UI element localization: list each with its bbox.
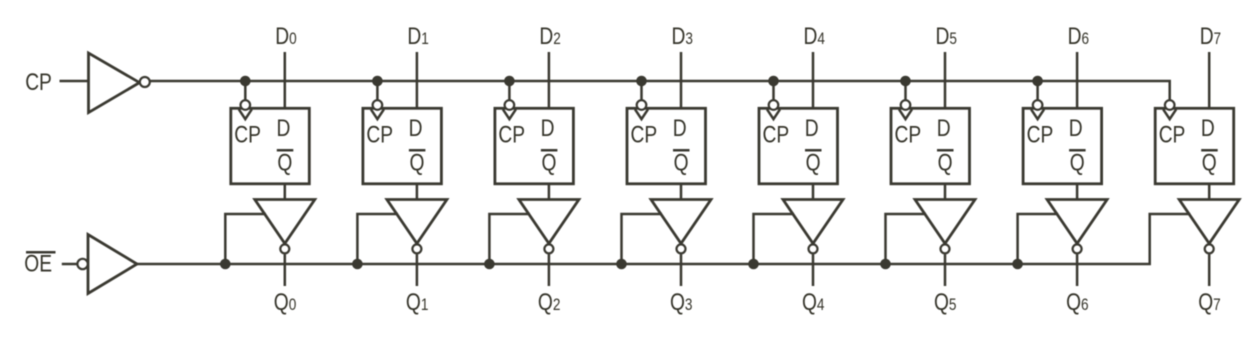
svg-text:Q: Q — [1202, 148, 1217, 176]
svg-text:CP: CP — [498, 120, 525, 148]
svg-text:Q: Q — [277, 148, 292, 176]
svg-text:CP: CP — [25, 68, 52, 96]
svg-text:D: D — [1069, 114, 1083, 142]
svg-text:D: D — [541, 114, 555, 142]
svg-text:D: D — [1201, 114, 1215, 142]
svg-text:D: D — [277, 114, 291, 142]
svg-text:CP: CP — [1159, 120, 1186, 148]
svg-text:CP: CP — [895, 120, 922, 148]
svg-text:Q: Q — [410, 148, 425, 176]
svg-text:Q: Q — [938, 148, 953, 176]
svg-text:CP: CP — [1027, 120, 1054, 148]
svg-text:D: D — [673, 114, 687, 142]
svg-text:CP: CP — [631, 120, 658, 148]
svg-text:OE: OE — [24, 250, 52, 278]
svg-text:D: D — [937, 114, 951, 142]
svg-text:D: D — [409, 114, 423, 142]
svg-text:CP: CP — [234, 120, 261, 148]
svg-text:CP: CP — [366, 120, 393, 148]
svg-text:Q: Q — [806, 148, 821, 176]
svg-text:Q: Q — [674, 148, 689, 176]
svg-text:Q: Q — [542, 148, 557, 176]
svg-text:CP: CP — [763, 120, 790, 148]
svg-text:D: D — [805, 114, 819, 142]
svg-text:Q: Q — [1070, 148, 1085, 176]
